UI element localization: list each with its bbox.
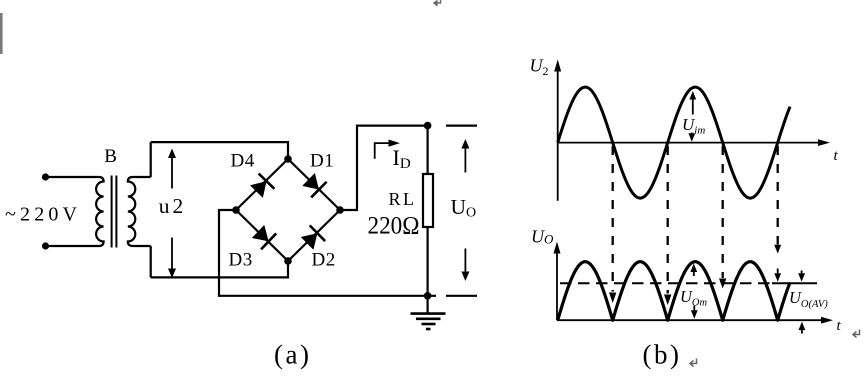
svg-text:~220V: ~220V [5,204,81,226]
axis UO vertical [554,242,561,321]
output terminal bar top [446,124,477,126]
stray gray table border fragment at left edge [0,13,3,54]
ground [411,296,446,329]
current ID arrow [375,140,400,159]
svg-text:D2: D2 [312,250,336,271]
node: bridge top [284,155,292,163]
transformer T secondary winding [128,177,151,246]
terminal dot: 220V bottom [42,242,49,249]
UOAV small arrow onto average line [774,269,781,282]
paragraph mark (top, clipped) [434,0,441,6]
axis U2 vertical [554,60,561,201]
terminal dot: 220V top [42,173,49,180]
svg-text:RL: RL [389,189,417,209]
u2 polarity arrow up [168,149,176,189]
axis t top horizontal [558,139,830,146]
transformer T primary winding [96,177,104,246]
svg-text:D1: D1 [310,151,334,172]
node: RL bottom junction [424,292,432,300]
wire: RL bottom lead [427,227,429,296]
average level dashed line [560,282,772,284]
paragraph mark bottom right [853,330,860,338]
wire: bridge left node to ground rail [219,210,436,296]
wire: primary top lead [46,176,100,178]
dashed timing line 2 with end arrowhead [664,146,671,305]
paragraph mark after (b) [690,359,697,367]
dashed timing line 4 with end arrowhead [774,146,781,254]
transformer core line 2 [115,176,117,248]
diode D2 [299,225,325,251]
svg-text:(b): (b) [643,340,682,370]
wire: secondary upper vertical stub [150,142,152,177]
wire: bridge right node to top rail [340,126,428,210]
wire: bridge diamond [236,159,340,261]
node: RL top junction [424,122,432,130]
average level solid extension [772,282,817,284]
svg-text:B: B [104,146,117,167]
svg-text:(a): (a) [274,340,311,370]
dashed timing line 1 with end arrowhead [609,146,616,303]
node: bridge left [232,206,240,214]
diode D1 [301,172,327,198]
UOAV dimension arrow up below axis [799,322,806,334]
UOm dimension arrow upper [690,264,697,277]
UOm dimension arrow lower [691,306,698,319]
Uo polarity arrow down [461,249,469,282]
svg-text:u2: u2 [159,194,187,218]
waveform uo rectified [558,262,790,321]
u2 polarity arrow down [168,238,176,279]
axis t bottom horizontal [557,317,833,324]
wire: primary bottom lead [46,245,100,247]
node: bridge bottom [284,257,292,265]
dashed timing line 3 with end arrowhead [719,146,726,289]
wire: u2 top rail to bridge top node [151,142,288,159]
node: bridge right [336,206,344,214]
transformer core line 1 [111,176,113,248]
Uim dimension arrow lower [688,133,695,142]
wire: secondary lower vertical stub [150,246,152,277]
waveform u2 sine [558,87,790,198]
resistor RL body [423,174,433,227]
diode D4 [249,174,275,200]
svg-text:D3: D3 [229,250,253,271]
UOAV dimension arrow down [798,271,805,282]
Uo polarity arrow up [461,139,469,173]
Uim dimension arrow upper [689,91,696,115]
svg-text:220Ω: 220Ω [368,213,420,240]
diode D3 [251,223,277,249]
wire: u2 bottom rail to bridge bottom node [151,261,288,277]
svg-text:D4: D4 [231,151,255,172]
output terminal bar bottom [446,295,477,297]
wire: RL top lead [427,126,429,174]
